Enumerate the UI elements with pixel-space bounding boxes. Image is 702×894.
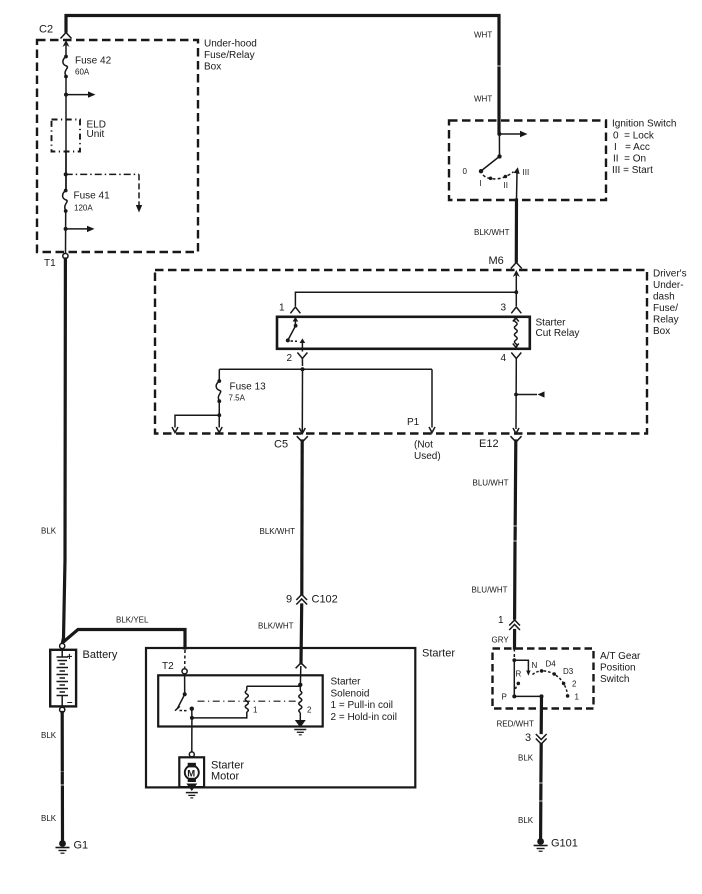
- svg-text:D3: D3: [563, 667, 574, 676]
- wire: ELD to fuse 41: [65, 152, 67, 191]
- ignition lever (at Lock): [481, 156, 500, 171]
- connector 3 double chevron (down): [536, 734, 547, 740]
- connector T1 (open circle on box edge): [63, 253, 68, 258]
- wire: fuse 42 through ELD to fuse 41: [65, 77, 67, 191]
- wire: M6 to relay node: [515, 275, 517, 292]
- node: coil junction: [298, 683, 302, 687]
- fuse 13 branch: [218, 369, 220, 381]
- relay moving contact arm (pin2): [301, 342, 303, 347]
- ground G1: [59, 840, 66, 847]
- svg-text:Starter: Starter: [422, 648, 455, 660]
- svg-text:dash: dash: [653, 292, 675, 303]
- Under-hood Fuse/Relay Box (dashed): [37, 40, 198, 252]
- wire BLK/WHT: C5 to C102: [300, 441, 304, 594]
- svg-text:0: 0: [463, 167, 468, 176]
- connector C2 mate arrow: [63, 40, 70, 47]
- svg-text:Unit: Unit: [87, 129, 105, 140]
- wire dashed break: [61, 774, 64, 784]
- svg-text:1: 1: [279, 303, 285, 314]
- wire: T1 to battery (BLK): [62, 259, 65, 644]
- svg-text:Solenoid: Solenoid: [331, 688, 370, 699]
- svg-text:BLK: BLK: [41, 731, 57, 740]
- wire: pin 4 down to E12: [515, 359, 517, 430]
- svg-text:Battery: Battery: [83, 649, 118, 661]
- svg-text:Switch: Switch: [600, 674, 629, 685]
- svg-text:RED/WHT: RED/WHT: [497, 720, 534, 729]
- wire: coil1 top to node: [247, 685, 300, 686]
- starter motor terminal circle: [189, 752, 194, 757]
- svg-text:Motor: Motor: [211, 771, 239, 783]
- ignition position III arrowhead: [514, 167, 520, 174]
- wire RED/WHT: A/T out: [540, 696, 543, 732]
- svg-text:I: I: [480, 179, 482, 188]
- svg-text:Starter: Starter: [331, 677, 362, 688]
- svg-text:I = Acc: I = Acc: [614, 142, 650, 153]
- wire: node to pin 3: [515, 292, 517, 306]
- solenoid moving contact node: [190, 707, 194, 711]
- ground G101: [537, 838, 544, 845]
- hold-in coil 2: [299, 685, 301, 691]
- svg-text:Ignition Switch: Ignition Switch: [612, 119, 676, 130]
- wire dashed break: [513, 528, 516, 539]
- svg-text:N: N: [532, 661, 538, 670]
- chevron above solenoid (C102 mate): [296, 663, 307, 669]
- svg-text:2: 2: [307, 706, 312, 715]
- svg-text:Driver's: Driver's: [653, 269, 687, 280]
- svg-text:D4: D4: [546, 660, 557, 669]
- connector 1 double chevron (A/T gear switch): [509, 620, 520, 626]
- svg-text:2 = Hold-in coil: 2 = Hold-in coil: [331, 712, 397, 723]
- fuse 42: [64, 55, 68, 59]
- svg-text:M: M: [187, 768, 195, 779]
- svg-text:Starter: Starter: [536, 318, 567, 329]
- connector M6 chevron: [511, 263, 522, 269]
- starter cut relay box: [277, 317, 530, 349]
- svg-text:BLK: BLK: [518, 816, 534, 825]
- relay contact (pin1 side): [294, 321, 296, 326]
- wire: WHT into ignition switch: [497, 77, 500, 133]
- svg-text:Position: Position: [600, 663, 636, 674]
- svg-text:Box: Box: [204, 62, 221, 73]
- Driver's Under-dash Fuse/Relay Box (dashed): [155, 270, 647, 434]
- node: E12 feed arrow (incoming): [514, 393, 518, 397]
- connector C2 chevron: [61, 33, 72, 39]
- svg-text:Fuse 42: Fuse 42: [75, 56, 112, 67]
- svg-text:BLK/WHT: BLK/WHT: [474, 228, 510, 237]
- svg-text:C2: C2: [39, 24, 53, 36]
- junction + distribution arrow (below fuse 41): [64, 227, 68, 231]
- svg-text:GRY: GRY: [492, 636, 510, 645]
- svg-text:T2: T2: [162, 661, 174, 672]
- wire: contact to pull-in coil bottom: [192, 712, 247, 718]
- svg-text:–: –: [67, 697, 73, 708]
- svg-text:BLK: BLK: [41, 814, 57, 823]
- battery top terminal circle: [60, 643, 65, 648]
- ground (solenoid coil): [295, 720, 306, 728]
- svg-text:1: 1: [575, 693, 580, 702]
- junction + dash-dot branch with down arrow: [64, 172, 68, 176]
- svg-text:7.5A: 7.5A: [229, 394, 246, 403]
- ignition switch box (dashed): [449, 121, 606, 201]
- A/T switch internals: [513, 649, 515, 661]
- output from P: [514, 695, 541, 697]
- svg-text:WHT: WHT: [474, 31, 492, 40]
- svg-text:Fuse/Relay: Fuse/Relay: [204, 50, 255, 61]
- connector E12 at box edge: [513, 428, 519, 434]
- wire: top feed from C2 to ignition switch: [66, 16, 499, 55]
- connector T2 (open circle): [182, 669, 187, 674]
- svg-text:G1: G1: [74, 840, 89, 852]
- svg-text:(Not: (Not: [414, 440, 433, 451]
- wire: battery to G1 (BLK): [61, 713, 64, 771]
- svg-text:BLU/WHT: BLU/WHT: [472, 586, 508, 595]
- relay pin 4 chevron: [511, 353, 521, 359]
- svg-text:Relay: Relay: [653, 315, 679, 326]
- svg-text:1 = Pull-in coil: 1 = Pull-in coil: [331, 700, 394, 711]
- A/T Gear Position Switch box (dashed): [493, 649, 594, 709]
- svg-text:BLK/WHT: BLK/WHT: [260, 527, 296, 536]
- pull-in coil 1: [245, 690, 248, 712]
- svg-text:2: 2: [287, 353, 293, 364]
- battery bottom terminal circle: [60, 707, 65, 712]
- svg-text:Cut Relay: Cut Relay: [536, 328, 580, 339]
- relay coil: [514, 319, 517, 348]
- svg-text:+: +: [67, 652, 73, 663]
- svg-text:II = On: II = On: [613, 154, 646, 165]
- wire dashed break: [539, 785, 542, 799]
- wire BLK: to G101: [539, 745, 542, 782]
- Starter box (solid): [146, 648, 415, 787]
- wire: pin 2 node rail: [301, 367, 305, 371]
- wire BLU/WHT lower: [513, 543, 517, 618]
- wire BLK lower: [539, 803, 542, 838]
- svg-text:E12: E12: [479, 438, 499, 450]
- relay pin 3 chevron: [511, 307, 521, 313]
- starter solenoid box: [158, 675, 323, 726]
- svg-text:60A: 60A: [75, 68, 90, 77]
- wire BLK/WHT: ignition to M6: [515, 200, 518, 261]
- starter motor M1: [179, 757, 204, 787]
- node: junction to relay pin 1: [514, 290, 518, 294]
- svg-text:Under-: Under-: [653, 280, 684, 291]
- svg-text:Used): Used): [414, 451, 441, 462]
- svg-text:Fuse 13: Fuse 13: [230, 382, 267, 393]
- svg-text:T1: T1: [44, 258, 56, 269]
- battery B1: [50, 650, 76, 707]
- svg-text:Fuse 41: Fuse 41: [74, 191, 111, 202]
- svg-text:P: P: [502, 693, 507, 702]
- wire: WHT vertical dashed break: [497, 57, 500, 64]
- ignition position dots/arc: [483, 175, 490, 178]
- svg-text:C5: C5: [274, 439, 288, 451]
- wiper arm: [514, 660, 528, 671]
- wire: III to box edge: [516, 172, 519, 200]
- svg-text:A/T Gear: A/T Gear: [600, 651, 641, 662]
- svg-text:R: R: [516, 670, 522, 679]
- junction fuse13 lower: [217, 413, 221, 417]
- wire GRY into A/T box: [513, 631, 516, 649]
- arrow: fuse13 line to box edge: [216, 427, 222, 433]
- ground (starter motor): [186, 784, 197, 792]
- connector C102 double chevron: [296, 595, 307, 601]
- position arc dots R N D4 D3 2 1: [517, 682, 521, 686]
- relay pin 2 chevron: [297, 353, 307, 359]
- solenoid switch contact: [184, 674, 186, 694]
- wire: contact to starter motor: [191, 719, 193, 752]
- ELD Unit box (dash-dot): [52, 120, 81, 152]
- svg-text:G101: G101: [551, 838, 578, 850]
- svg-text:1: 1: [253, 706, 258, 715]
- wire: into T2: [184, 650, 186, 668]
- relay pin 1 chevron: [290, 307, 300, 313]
- wire BLK/YEL: branch to starter T2: [65, 630, 186, 649]
- svg-text:BLK: BLK: [518, 754, 534, 763]
- wire to ground G1: [61, 795, 64, 840]
- wire: fuse 41 to T1: [65, 211, 67, 253]
- mechanical dash-dot link: [198, 700, 297, 702]
- connector C5 at box edge: [299, 428, 305, 434]
- junction + distribution arrow (below fuse 42): [64, 93, 68, 97]
- svg-text:2: 2: [572, 680, 577, 689]
- pole to P: [513, 660, 515, 696]
- wire: step branch to box edge: [175, 415, 219, 427]
- svg-text:III: III: [523, 168, 530, 177]
- svg-text:WHT: WHT: [474, 95, 492, 104]
- ignition switch S1 internals: [497, 132, 501, 136]
- svg-text:III = Start: III = Start: [612, 165, 653, 176]
- svg-text:BLK/YEL: BLK/YEL: [116, 616, 149, 625]
- wire BLU/WHT: E12 down: [514, 441, 518, 524]
- svg-text:BLK: BLK: [41, 527, 57, 536]
- svg-text:1: 1: [498, 615, 504, 626]
- svg-text:BLU/WHT: BLU/WHT: [473, 479, 509, 488]
- svg-text:Box: Box: [653, 326, 670, 337]
- svg-text:II: II: [504, 181, 508, 190]
- svg-text:P1: P1: [407, 417, 420, 428]
- wire BLK/WHT: C102 to starter solenoid: [299, 605, 303, 663]
- svg-text:C102: C102: [312, 594, 338, 606]
- svg-text:3: 3: [525, 732, 531, 744]
- svg-text:3: 3: [501, 303, 507, 314]
- svg-text:Under-hood: Under-hood: [204, 39, 257, 50]
- wire: rail down to P1: [431, 369, 433, 427]
- svg-text:BLK/WHT: BLK/WHT: [258, 622, 294, 631]
- svg-text:120A: 120A: [74, 204, 93, 213]
- svg-text:0 = Lock: 0 = Lock: [613, 131, 655, 142]
- svg-text:M6: M6: [489, 255, 504, 267]
- svg-text:4: 4: [501, 353, 507, 364]
- fuse 41: [64, 189, 68, 193]
- connector M6 mate arrow: [513, 270, 520, 277]
- svg-text:9: 9: [286, 594, 292, 606]
- svg-text:Fuse/: Fuse/: [653, 303, 678, 314]
